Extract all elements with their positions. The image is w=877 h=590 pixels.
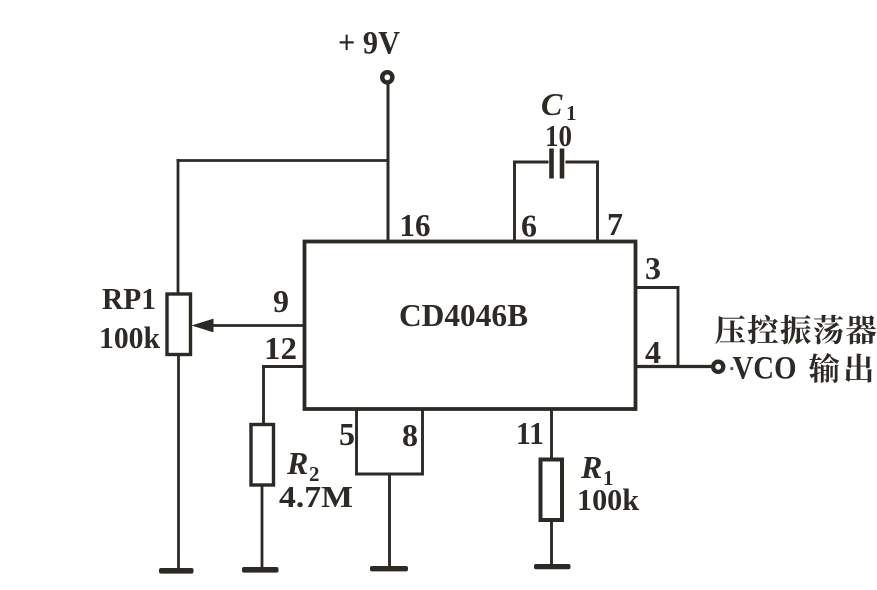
svg-text:9: 9 bbox=[273, 283, 289, 319]
capacitor C1 plates bbox=[549, 149, 554, 179]
wire pin 4 to output terminal bbox=[636, 365, 713, 368]
wire pin 11 to R1 bbox=[550, 409, 553, 460]
potentiometer RP1 body bbox=[167, 294, 191, 355]
svg-text:3: 3 bbox=[645, 250, 661, 286]
svg-text:6: 6 bbox=[521, 208, 537, 244]
svg-text:8: 8 bbox=[402, 417, 418, 453]
svg-text:R: R bbox=[286, 445, 308, 481]
svg-text:11: 11 bbox=[516, 415, 544, 451]
svg-text:12: 12 bbox=[264, 330, 297, 366]
svg-text:100k: 100k bbox=[99, 320, 161, 355]
svg-text:+ 9V: + 9V bbox=[338, 26, 400, 62]
wire +9V terminal down to pin 16 bbox=[387, 84, 390, 243]
ground (R2) bbox=[242, 567, 279, 573]
svg-text:7: 7 bbox=[607, 206, 623, 242]
wire pin 12 to R2 bbox=[264, 367, 306, 426]
power terminal +9V bbox=[382, 72, 392, 82]
wire horizontal supply branch bbox=[177, 159, 390, 162]
wire pin 3 stub bbox=[636, 288, 678, 367]
wiper arrow wire to pin 9 bbox=[211, 324, 305, 327]
resistor R2 body bbox=[251, 425, 274, 486]
ground (pins 5 8) bbox=[370, 566, 408, 571]
IC U1 CD4046B outline bbox=[305, 242, 636, 410]
wire RP1 bottom to ground bbox=[177, 354, 180, 569]
output terminal circle bbox=[713, 362, 723, 372]
svg-text:10: 10 bbox=[545, 118, 572, 153]
label 压控振荡器 (VCO) line 1 bbox=[715, 315, 876, 345]
svg-text:RP1: RP1 bbox=[102, 281, 156, 316]
svg-text:100k: 100k bbox=[577, 482, 640, 517]
svg-text:R: R bbox=[580, 449, 602, 485]
svg-text:VCO: VCO bbox=[733, 351, 797, 387]
svg-text:5: 5 bbox=[339, 416, 355, 452]
ground (RP1) bbox=[159, 568, 194, 574]
capacitor C1 loop: right wire pin 7 bbox=[566, 162, 598, 240]
wire pins 5+8 junction box bbox=[357, 409, 423, 474]
capacitor C1 loop: left wire pin 6 bbox=[515, 162, 549, 240]
wire down to RP1 top bbox=[177, 159, 180, 295]
wire junction to ground bbox=[388, 474, 391, 567]
speck bbox=[730, 367, 733, 370]
wire R1 to ground bbox=[550, 520, 553, 565]
wire R2 to ground bbox=[261, 485, 264, 568]
svg-text:C: C bbox=[541, 86, 563, 122]
resistor R1 body bbox=[541, 460, 563, 521]
ground (R1) bbox=[534, 564, 571, 569]
svg-text:16: 16 bbox=[400, 207, 431, 243]
svg-text:CD4046B: CD4046B bbox=[399, 297, 528, 333]
svg-text:4: 4 bbox=[645, 334, 661, 370]
svg-text:4.7M: 4.7M bbox=[279, 479, 353, 514]
